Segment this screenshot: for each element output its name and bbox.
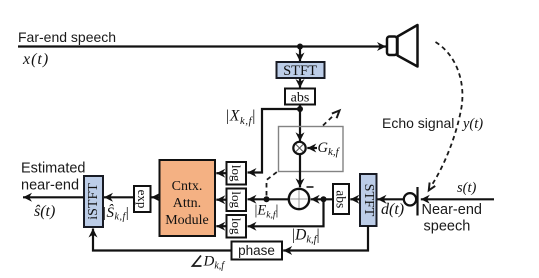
- wire D branch down to log3: [248, 199, 324, 226]
- svg-text:Echo signal: Echo signal: [382, 115, 454, 131]
- phase box: [232, 242, 283, 260]
- summation circle: [289, 189, 309, 209]
- svg-text:abs: abs: [334, 190, 349, 208]
- svg-text:Module: Module: [165, 213, 209, 228]
- label angle D k,f: [193, 256, 202, 267]
- svg-text:log: log: [229, 218, 244, 235]
- svg-text:Cntx.: Cntx.: [172, 179, 203, 194]
- svg-text:iSTFT: iSTFT: [86, 183, 101, 220]
- svg-text:Near-end: Near-end: [422, 202, 482, 218]
- dashed feedback E to gray box: [267, 171, 279, 196]
- dashed arrow out of gray box to top-right: [323, 115, 335, 126]
- svg-text:Estimated: Estimated: [21, 161, 85, 177]
- dashed echo path speaker to mic: [433, 42, 463, 184]
- svg-text:STFT: STFT: [361, 184, 376, 217]
- wire log3 to module: [216, 225, 226, 227]
- junction dot below abs: [297, 106, 303, 112]
- wire abs2 to summation: [311, 198, 333, 200]
- svg-text:exp: exp: [135, 190, 150, 209]
- svg-text:speech: speech: [424, 219, 471, 235]
- wire log2 to module: [216, 199, 226, 201]
- svg-text:near-end: near-end: [21, 178, 79, 194]
- wire iSTFT output: [23, 196, 84, 198]
- wire G label to multiplier: [307, 147, 317, 149]
- wire phase to iSTFT: [93, 229, 232, 251]
- wire s(t) input: [421, 198, 494, 200]
- wire exp to iSTFT: [104, 196, 134, 198]
- junction dot on E line: [264, 196, 270, 202]
- junction dot on D line: [321, 196, 327, 202]
- svg-text:log: log: [229, 191, 244, 208]
- STFT box (top): [277, 62, 325, 78]
- log box 2: [227, 189, 247, 212]
- wire abs down to multiplier: [299, 105, 301, 142]
- speaker: [398, 25, 418, 67]
- wire summation output to log2: [248, 198, 289, 200]
- wire far-end main line to speaker: [18, 45, 386, 47]
- wire STFT2 down to phase: [283, 226, 368, 251]
- svg-text:phase: phase: [238, 243, 275, 258]
- wire STFT to abs: [299, 78, 301, 88]
- svg-text:d(t): d(t): [381, 201, 404, 218]
- svg-text:x(t): x(t): [22, 51, 49, 68]
- svg-text:s(t): s(t): [457, 180, 477, 196]
- svg-text:abs: abs: [291, 91, 310, 106]
- iSTFT box: [84, 176, 103, 227]
- STFT box (right, rotated): [360, 174, 377, 226]
- wire mic to STFT2: [378, 198, 404, 200]
- svg-text:Attn.: Attn.: [173, 196, 201, 211]
- junction dot on far-end line: [297, 44, 303, 50]
- wire junction down to STFT: [299, 47, 301, 62]
- abs box (right, rotated): [333, 184, 349, 214]
- multiplier circle G: [293, 142, 305, 154]
- svg-text:STFT: STFT: [283, 63, 317, 79]
- microphone: [404, 193, 416, 205]
- svg-text:Far-end speech: Far-end speech: [18, 29, 116, 45]
- svg-text:ŝ(t): ŝ(t): [34, 203, 55, 220]
- wire log1 to module: [216, 172, 226, 174]
- svg-text:log: log: [229, 165, 244, 182]
- wire STFT2 to abs2: [350, 198, 360, 200]
- exp box: [134, 186, 151, 212]
- log box 3: [227, 215, 247, 238]
- minus sign: [307, 186, 314, 188]
- svg-text:y(t): y(t): [461, 116, 483, 132]
- wire module to exp: [151, 196, 159, 198]
- gray estimation box: [279, 127, 344, 172]
- context attention module: [160, 160, 216, 236]
- wire multiplier down to summation: [299, 154, 301, 187]
- log box 1: [227, 162, 247, 185]
- abs box (top): [285, 89, 315, 105]
- wire |X| branch left and down to log1: [248, 109, 301, 173]
